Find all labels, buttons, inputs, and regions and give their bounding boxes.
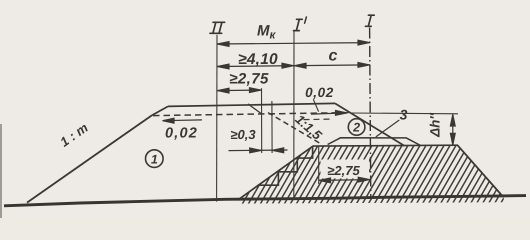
axis I dash-dot — [370, 28, 371, 199]
svg-text:≥0,3: ≥0,3 — [230, 127, 256, 142]
svg-text:≥4,10: ≥4,10 — [238, 51, 278, 68]
dimension lower 2,75 line — [319, 177, 370, 183]
svg-text:c: c — [329, 48, 338, 65]
drainage prism on berm — [328, 138, 421, 146]
hatched new fill area — [192, 135, 530, 208]
extension line v2 — [271, 101, 273, 153]
dimension 4,10 line — [217, 63, 370, 69]
label II — [210, 22, 225, 33]
dashed old crest line — [153, 113, 351, 116]
svg-text:1:1,5: 1:1,5 — [292, 112, 325, 144]
label I prime — [294, 17, 307, 31]
svg-text:≥2,75: ≥2,75 — [327, 163, 360, 178]
dimension M_k line — [217, 40, 370, 46]
svg-text:1: 1 — [151, 152, 158, 166]
benches staircase — [258, 146, 313, 185]
svg-text:3: 3 — [400, 107, 408, 123]
svg-text:0,02: 0,02 — [165, 126, 198, 142]
svg-text:Δh″: Δh″ — [428, 113, 443, 138]
extension for lower 2,75 — [318, 146, 320, 184]
shoulder bevel — [152, 106, 168, 115]
extra dash fragment — [304, 118, 332, 121]
crest line — [168, 103, 335, 106]
berm top of widening fill — [313, 144, 458, 147]
right slope of widening fill — [458, 145, 504, 197]
label I — [365, 15, 374, 26]
cut corner diagonal — [248, 104, 262, 114]
leader for 3 — [376, 120, 400, 137]
circled 1 — [146, 150, 164, 168]
dimension upper 2,75 line — [217, 88, 262, 93]
svg-text:0,02: 0,02 — [305, 85, 334, 100]
circled 2 — [348, 119, 365, 136]
dimension 0,3 line — [229, 148, 288, 153]
slope arrow 0,02 right — [311, 99, 347, 115]
dashed buried slope 1:1,5 — [268, 113, 321, 144]
axis II — [216, 35, 218, 202]
svg-text:≥2,75: ≥2,75 — [229, 71, 269, 88]
slope arrow 0,02 left — [163, 118, 203, 123]
delta-h upper reference line — [351, 112, 459, 115]
axis I prime — [293, 32, 295, 201]
svg-text:Mк: Mк — [257, 23, 277, 42]
svg-text:1 : m: 1 : m — [57, 120, 91, 150]
dimension delta-h vertical — [450, 114, 455, 145]
extension line v1 — [261, 88, 263, 153]
white box behind lower 2,75 label — [321, 160, 370, 179]
boundary diagonal of new fill 1:1.5 — [239, 146, 313, 199]
scan edge smudge left — [0, 124, 2, 218]
old embankment left slope 1:m — [27, 115, 152, 202]
right slope of raised crest — [335, 103, 405, 145]
ground line — [4, 196, 526, 206]
svg-text:2: 2 — [352, 121, 360, 135]
